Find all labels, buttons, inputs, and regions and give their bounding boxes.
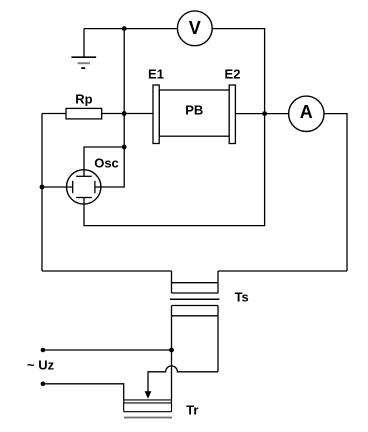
node transformer tap junction (169, 348, 174, 353)
wire PB right to ammeter (235, 113, 288, 115)
source ~Uz terminal top (41, 348, 46, 353)
wire Rp left (42, 113, 66, 115)
resistor Rp (66, 92, 102, 119)
wire Osc right lead up to top node (95, 147, 124, 187)
wire voltmeter right, down to node A-row (212, 29, 264, 114)
oscillator Osc (67, 155, 119, 204)
source ~Uz terminal bottom (41, 382, 46, 387)
voltmeter V (177, 11, 212, 46)
node Osc top junction (122, 145, 127, 150)
wire Osc top lead to top node (84, 147, 124, 176)
svg-text:E2: E2 (225, 67, 241, 82)
wire winding bottom with hop and wiper arrow (145, 366, 218, 399)
wire bottom right (218, 270, 347, 272)
wire Osc left lead (42, 186, 73, 188)
svg-text:PB: PB (185, 103, 203, 118)
autotransformer Tr (124, 400, 199, 418)
node PB-A junction (262, 111, 267, 116)
transformer Ts bottom winding (172, 290, 249, 401)
wire main vertical (top wire to Osc top node) (123, 29, 125, 147)
svg-text:V: V (189, 18, 201, 38)
discharge chamber PB (148, 67, 240, 144)
svg-text:E1: E1 (148, 67, 164, 82)
wire ~Uz top to transformer lead (43, 349, 172, 351)
svg-text:Ts: Ts (235, 290, 249, 305)
ground (71, 29, 96, 69)
wire ~Uz bottom to Tr (43, 384, 124, 400)
wire Rp right to PB electrode E1 (102, 113, 153, 115)
svg-text:Rp: Rp (75, 92, 92, 107)
wire Osc bottom lead across to right column (84, 114, 265, 226)
node Osc left junction (40, 185, 45, 190)
wire left vertical (41, 114, 43, 272)
transformer Ts top winding (172, 271, 219, 293)
wire top-left (ground corner to voltmeter) (84, 28, 177, 30)
svg-text:A: A (300, 102, 313, 122)
transformer Ts core (170, 298, 220, 300)
svg-text:Tr: Tr (186, 403, 198, 418)
wire bottom left (42, 270, 172, 272)
node Rp junction (122, 111, 127, 116)
ammeter A (289, 96, 324, 131)
node top junction (122, 26, 127, 31)
svg-text:Osc: Osc (94, 155, 119, 170)
svg-text:~ Uz: ~ Uz (27, 358, 55, 373)
wire ammeter right down right column (324, 114, 347, 271)
